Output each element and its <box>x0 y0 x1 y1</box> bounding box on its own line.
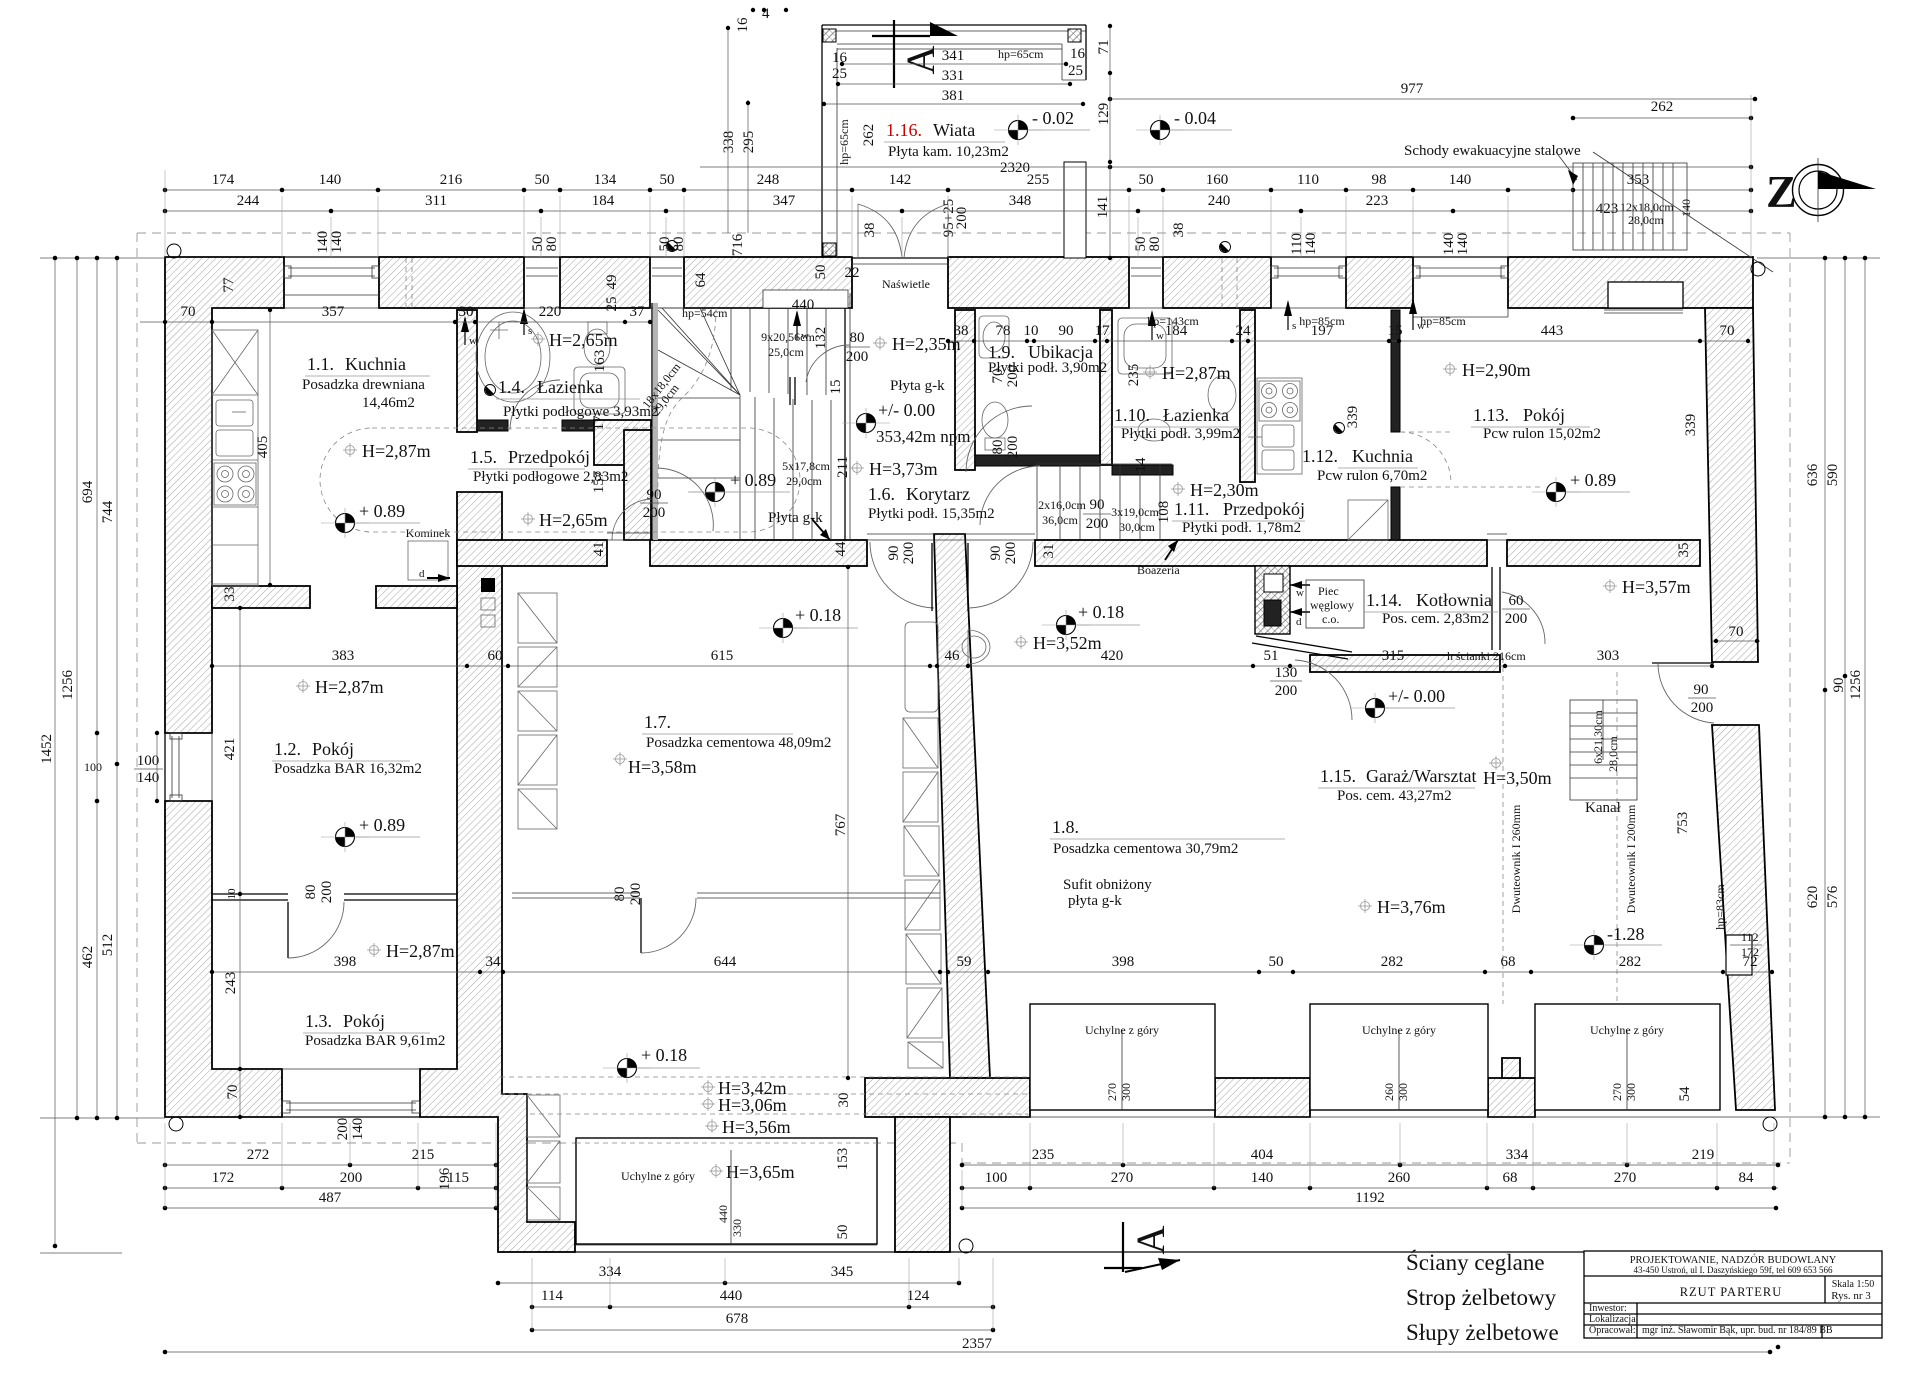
svg-text:A: A <box>1128 1225 1173 1254</box>
svg-text:200: 200 <box>319 881 335 904</box>
svg-text:H=2,90m: H=2,90m <box>1462 360 1531 380</box>
kotlownia bottom wall <box>1310 655 1500 672</box>
room 1.1 label <box>302 354 430 411</box>
svg-text:200: 200 <box>1691 700 1714 716</box>
svg-text:421: 421 <box>222 738 238 761</box>
svg-text:216: 216 <box>440 172 463 188</box>
svg-text:98: 98 <box>1372 172 1387 188</box>
pocket in right wall <box>1726 935 1752 975</box>
svg-text:17: 17 <box>1095 323 1111 339</box>
svg-text:300: 300 <box>1396 1083 1410 1101</box>
svg-text:Garaż/Warsztat: Garaż/Warsztat <box>1366 766 1476 786</box>
wall corner block 1.4/stair <box>594 420 651 465</box>
svg-text:Lokalizacja:: Lokalizacja: <box>1589 1314 1638 1325</box>
window top 50 (650-684) <box>650 257 684 308</box>
wall divider 1.7/1.8 <box>934 534 990 1078</box>
svg-text:90: 90 <box>1059 323 1074 339</box>
svg-text:6x21,30cm: 6x21,30cm <box>1591 710 1605 764</box>
entry opening threshold <box>852 257 948 259</box>
svg-text:330: 330 <box>730 1219 744 1237</box>
svg-text:d: d <box>1296 616 1302 628</box>
H height labels with targets <box>296 330 1691 1182</box>
partition wall in 1.7 with door <box>512 892 640 894</box>
svg-text:620: 620 <box>1805 886 1821 909</box>
svg-text:Schody ewakuacyjne stalowe: Schody ewakuacyjne stalowe <box>1404 143 1581 159</box>
svg-text:130: 130 <box>1275 665 1298 681</box>
svg-text:615: 615 <box>711 648 734 664</box>
interior dims kitchen row right <box>1255 314 1750 343</box>
svg-text:Łazienka: Łazienka <box>537 377 603 397</box>
svg-text:339: 339 <box>1345 406 1361 429</box>
svg-text:25: 25 <box>604 297 620 312</box>
sink room 1.8 <box>962 630 990 664</box>
svg-text:90: 90 <box>886 546 902 561</box>
svg-text:282: 282 <box>1381 954 1404 970</box>
basement stairs 1.11 <box>980 462 1172 540</box>
svg-text:196: 196 <box>437 1167 453 1190</box>
svg-text:Uchylne z góry: Uchylne z góry <box>621 1169 695 1183</box>
kitchen vertical dim 405 <box>269 310 271 585</box>
svg-text:Ubikacja: Ubikacja <box>1028 342 1093 362</box>
section mark A top <box>872 20 958 88</box>
svg-text:H=2,87m: H=2,87m <box>315 677 384 697</box>
svg-text:H=2,65m: H=2,65m <box>539 510 608 530</box>
bottom center chains <box>163 1264 1773 1354</box>
svg-text:1.4.: 1.4. <box>498 377 525 397</box>
svg-text:Ściany ceglane: Ściany ceglane <box>1406 1249 1545 1275</box>
svg-text:5x17,8cm: 5x17,8cm <box>782 459 830 473</box>
wall stub 1.11/1.13 <box>1391 487 1400 540</box>
svg-text:Pos. cem. 43,27m2: Pos. cem. 43,27m2 <box>1337 788 1452 804</box>
svg-text:10: 10 <box>226 888 238 900</box>
svg-text:c.o.: c.o. <box>1322 612 1339 626</box>
room 1.13 label <box>1471 405 1601 442</box>
svg-text:44: 44 <box>833 541 849 557</box>
svg-text:744: 744 <box>100 500 116 523</box>
svg-text:A: A <box>898 45 943 74</box>
wall 1.9/1.10 <box>1100 310 1112 465</box>
svg-text:223: 223 <box>1366 193 1389 209</box>
interior dims bathroom row y341 <box>946 314 1255 343</box>
bottom chains row3 <box>163 1190 1779 1210</box>
svg-text:68: 68 <box>1501 954 1516 970</box>
dashed site boundary <box>137 233 1790 1163</box>
svg-text:487: 487 <box>319 1190 342 1206</box>
svg-text:węglowy: węglowy <box>1310 598 1354 612</box>
svg-text:mgr inż. Sławomir Bąk, upr. bu: mgr inż. Sławomir Bąk, upr. bud. nr 184/… <box>1642 1325 1833 1336</box>
svg-text:10: 10 <box>1024 323 1039 339</box>
svg-text:405: 405 <box>255 436 271 459</box>
svg-text:Korytarz: Korytarz <box>906 484 970 504</box>
room 1.3 label <box>303 1011 445 1049</box>
svg-text:270: 270 <box>1610 1083 1624 1101</box>
bathroom 1.9 fixtures <box>979 316 1009 450</box>
svg-text:14,46m2: 14,46m2 <box>362 395 415 411</box>
svg-text:235: 235 <box>1126 364 1142 387</box>
svg-text:200: 200 <box>1086 516 1109 532</box>
svg-text:Przedpokój: Przedpokój <box>508 447 590 467</box>
svg-text:59: 59 <box>957 954 972 970</box>
door kotlownia right 60/200 <box>1502 592 1545 644</box>
dim line y166 <box>700 166 1751 168</box>
svg-text:- 0.02: - 0.02 <box>1032 108 1074 128</box>
top chain 1 <box>165 189 1573 191</box>
svg-text:140: 140 <box>329 231 345 254</box>
section mark A bottom <box>1104 1222 1180 1272</box>
room 1.10 label <box>1112 405 1240 442</box>
svg-text:+ 0.18: + 0.18 <box>795 605 841 625</box>
svg-text:140: 140 <box>1455 233 1471 256</box>
kotlownia right wall <box>1491 567 1493 650</box>
svg-text:1.13.: 1.13. <box>1473 405 1509 425</box>
svg-text:51: 51 <box>1264 648 1279 664</box>
svg-text:Pokój: Pokój <box>1523 405 1565 425</box>
svg-text:H=3,57m: H=3,57m <box>1622 577 1691 597</box>
svg-text:200: 200 <box>1005 436 1021 459</box>
svg-text:1.7.: 1.7. <box>644 712 671 732</box>
svg-text:hp=83cm: hp=83cm <box>1713 884 1727 930</box>
wall 1.12/1.13 <box>1391 310 1400 432</box>
svg-text:50: 50 <box>813 265 829 280</box>
svg-text:440: 440 <box>720 1288 743 1304</box>
garage door G3 Uchylne <box>1535 1004 1720 1110</box>
svg-text:+ 0.18: + 0.18 <box>641 1045 687 1065</box>
wall mid M3 <box>1035 540 1487 566</box>
svg-text:70: 70 <box>181 304 196 320</box>
svg-text:Posadzka cementowa 48,09m2: Posadzka cementowa 48,09m2 <box>646 735 831 751</box>
svg-text:Posadzka BAR 16,32m2: Posadzka BAR 16,32m2 <box>274 761 422 777</box>
svg-text:80: 80 <box>303 885 319 900</box>
svg-text:49: 49 <box>604 275 620 290</box>
svg-text:211: 211 <box>835 456 851 478</box>
kominek square <box>408 541 448 580</box>
svg-text:płyta g-k: płyta g-k <box>1068 893 1122 909</box>
door corridor to 1.9 <box>966 406 1032 472</box>
svg-text:H=3,73m: H=3,73m <box>869 459 938 479</box>
dim row y972 <box>210 954 1774 974</box>
boiler piec weglowy arrows <box>1290 580 1364 628</box>
vertical dim 71/129/141 <box>1109 26 1111 258</box>
niche in T8 <box>1608 282 1683 308</box>
svg-text:29,0cm: 29,0cm <box>786 474 822 488</box>
svg-text:220: 220 <box>539 304 562 320</box>
svg-text:90: 90 <box>1831 678 1847 693</box>
wall between 1.1 and 1.2 seg1 <box>212 586 310 608</box>
svg-text:H=3,52m: H=3,52m <box>1033 633 1102 653</box>
wall right lower <box>1712 725 1775 1110</box>
svg-text:30: 30 <box>459 304 474 320</box>
svg-text:1.6.: 1.6. <box>868 484 895 504</box>
wall top T2 <box>379 257 524 308</box>
door labels 90/200 pairs <box>315 231 1716 1141</box>
sciany text block <box>1406 1249 1559 1345</box>
svg-text:16: 16 <box>832 50 848 66</box>
svg-text:16: 16 <box>1070 46 1086 62</box>
witness lines from chains to wall <box>165 95 1751 257</box>
wall left lower + bottom-left <box>165 801 282 1117</box>
svg-text:694: 694 <box>80 480 96 503</box>
svg-text:140: 140 <box>350 1118 366 1141</box>
svg-text:Z: Z <box>1766 166 1797 217</box>
svg-text:80: 80 <box>990 440 1006 455</box>
door kotlownia left 130/200 <box>1295 660 1352 720</box>
svg-text:200: 200 <box>1005 365 1021 388</box>
svg-text:398: 398 <box>334 954 357 970</box>
svg-text:345: 345 <box>831 1264 854 1280</box>
svg-text:30,0cm: 30,0cm <box>1119 520 1155 534</box>
garage door G2 Uchylne <box>1310 1004 1488 1110</box>
svg-text:Strop żelbetowy: Strop żelbetowy <box>1406 1285 1557 1310</box>
svg-text:H=2,87m: H=2,87m <box>362 441 431 461</box>
svg-text:462: 462 <box>80 946 96 969</box>
svg-text:Posadzka drewniana: Posadzka drewniana <box>302 377 425 393</box>
misc small rotated dims <box>591 233 1760 1239</box>
window top 50 (1129-1163) <box>1129 257 1163 308</box>
wall 1.4 bottom seg2 <box>562 420 600 431</box>
svg-text:282: 282 <box>1619 954 1642 970</box>
svg-text:15: 15 <box>1388 323 1403 339</box>
svg-text:Kotłownia: Kotłownia <box>1416 590 1492 610</box>
svg-text:576: 576 <box>1825 885 1841 908</box>
svg-text:420: 420 <box>1101 648 1124 664</box>
svg-text:50: 50 <box>1269 954 1284 970</box>
svg-text:348: 348 <box>1009 193 1032 209</box>
svg-text:272: 272 <box>247 1147 270 1163</box>
wall between 1.1 and 1.2 seg2 <box>376 586 457 608</box>
dim row y666 <box>210 648 1714 668</box>
svg-text:353: 353 <box>1627 172 1650 188</box>
svg-text:1.16.: 1.16. <box>886 120 922 140</box>
svg-text:+ 0.89: + 0.89 <box>359 815 405 835</box>
svg-text:141: 141 <box>1095 196 1111 219</box>
room 1.16 wiata label <box>884 120 1030 176</box>
door 1.12 to 1.13 dashed <box>1400 431 1452 433</box>
chimney flue dashes in T2 <box>405 258 407 308</box>
svg-text:338: 338 <box>721 131 737 154</box>
door 1.5 to 1.7 <box>612 499 652 540</box>
top dimension chain 977 <box>1110 98 1755 100</box>
wall 1.9 left <box>955 310 975 470</box>
svg-text:80: 80 <box>1147 237 1163 252</box>
svg-text:Wiata: Wiata <box>933 120 975 140</box>
svg-text:124: 124 <box>907 1288 930 1304</box>
room 1.5 label <box>468 447 628 485</box>
svg-text:2x16,0cm: 2x16,0cm <box>1038 498 1086 512</box>
svg-text:68: 68 <box>1503 1170 1518 1186</box>
svg-text:110: 110 <box>1297 172 1319 188</box>
wall mid M2 <box>650 540 867 566</box>
svg-text:200: 200 <box>846 349 869 365</box>
wall top T3 <box>560 257 650 308</box>
svg-text:142: 142 <box>889 172 912 188</box>
wall right upper <box>1705 308 1758 662</box>
svg-text:25: 25 <box>832 66 847 82</box>
svg-text:- 0.04: - 0.04 <box>1174 108 1216 128</box>
svg-text:140: 140 <box>319 172 342 188</box>
svg-text:+/- 0.00: +/- 0.00 <box>878 400 935 420</box>
svg-text:H=3,65m: H=3,65m <box>726 1162 795 1182</box>
svg-text:24: 24 <box>1236 323 1252 339</box>
svg-text:Płyta g-k: Płyta g-k <box>768 510 823 526</box>
window top 110 (1271-1346) <box>1271 257 1346 308</box>
svg-text:70: 70 <box>1729 624 1744 640</box>
svg-text:70: 70 <box>1720 323 1735 339</box>
svg-text:1.11.: 1.11. <box>1174 499 1209 519</box>
left vertical chains <box>39 256 165 1253</box>
kitchen 1.12 counter <box>1248 378 1302 474</box>
svg-text:270: 270 <box>1105 1083 1119 1101</box>
svg-text:17: 17 <box>591 415 607 431</box>
wall top T5 <box>948 257 1129 308</box>
right vertical chains <box>1757 256 1880 1120</box>
svg-text:140: 140 <box>1251 1170 1274 1186</box>
svg-text:2320: 2320 <box>1000 160 1030 176</box>
window left wall (733-801) <box>165 733 212 801</box>
title block <box>1584 1251 1882 1349</box>
half symbols on walls <box>667 241 678 252</box>
room 1.8 label <box>1050 817 1285 909</box>
svg-text:78: 78 <box>996 323 1011 339</box>
svg-text:Posadzka cementowa 30,79m2: Posadzka cementowa 30,79m2 <box>1053 841 1238 857</box>
svg-text:Boazeria: Boazeria <box>1137 563 1180 577</box>
svg-text:100: 100 <box>985 1170 1008 1186</box>
kanal pit stairs garage <box>1570 700 1637 800</box>
room 1.15 label <box>1318 766 1476 804</box>
svg-text:34: 34 <box>486 954 502 970</box>
svg-text:244: 244 <box>237 193 260 209</box>
svg-text:w: w <box>1296 587 1304 599</box>
window bottom (282-420) <box>282 1069 420 1117</box>
svg-text:636: 636 <box>1805 463 1821 486</box>
svg-text:31: 31 <box>1041 544 1057 559</box>
wall bottom pillar BB2 <box>1215 1078 1310 1117</box>
door 1.4 arc <box>510 380 560 430</box>
svg-text:270: 270 <box>1111 1170 1134 1186</box>
fireplace column boxes <box>481 578 495 592</box>
dashed ceiling zone 1.1/1.5 <box>320 428 800 532</box>
svg-text:H=2,35m: H=2,35m <box>892 334 961 354</box>
svg-text:767: 767 <box>833 813 849 836</box>
door 1.5 right 90/200 <box>657 468 713 531</box>
svg-text:381: 381 <box>942 88 965 104</box>
room 1.2 vertical dims <box>239 608 241 1117</box>
svg-text:260: 260 <box>1388 1170 1411 1186</box>
door right wall 90/200 <box>1658 664 1714 723</box>
dim 353 <box>1573 189 1751 191</box>
bottom witness lines <box>165 1123 1774 1330</box>
svg-text:3x19,0cm: 3x19,0cm <box>1111 505 1159 519</box>
svg-text:153: 153 <box>835 1148 851 1171</box>
svg-text:140: 140 <box>137 770 160 786</box>
svg-text:174: 174 <box>212 172 235 188</box>
svg-text:1.3.: 1.3. <box>305 1011 332 1031</box>
svg-text:50: 50 <box>535 172 550 188</box>
plyta g-k corridor arrow <box>812 519 830 540</box>
svg-text:311: 311 <box>425 193 447 209</box>
wall vertical V1/V2/V3 between rooms and 1.7 with lower extension <box>420 492 575 1252</box>
svg-text:Pokój: Pokój <box>343 1011 385 1031</box>
svg-text:H=2,65m: H=2,65m <box>549 330 618 350</box>
svg-text:22: 22 <box>845 265 860 281</box>
wall stairwell left <box>624 430 651 540</box>
wall top T1 + left wall upper <box>165 257 284 733</box>
svg-text:1256: 1256 <box>60 670 76 701</box>
thin wall 1.2/1.3 <box>212 893 288 895</box>
svg-text:Łazienka: Łazienka <box>1163 405 1229 425</box>
svg-text:H=3,06m: H=3,06m <box>718 1095 787 1115</box>
svg-text:172: 172 <box>1741 945 1759 959</box>
fixture half symbol 1.4 <box>485 385 496 396</box>
svg-text:Pcw rulon 6,70m2: Pcw rulon 6,70m2 <box>1317 468 1427 484</box>
svg-text:200: 200 <box>1275 683 1298 699</box>
dim 767 room 1.7 <box>847 567 849 1078</box>
svg-text:14: 14 <box>1133 457 1149 473</box>
svg-text:hp=65cm: hp=65cm <box>837 119 851 165</box>
svg-text:140: 140 <box>1449 172 1472 188</box>
svg-text:50: 50 <box>835 1225 851 1240</box>
svg-text:H=2,87m: H=2,87m <box>1162 363 1231 383</box>
kitchen 1.1 counter <box>212 330 258 586</box>
svg-text:28,0cm: 28,0cm <box>1628 213 1664 227</box>
svg-text:Inwestor:: Inwestor: <box>1589 1303 1627 1314</box>
svg-text:12x18,0cm: 12x18,0cm <box>1620 200 1674 214</box>
wiata structure <box>822 25 1086 258</box>
svg-text:41: 41 <box>591 542 607 557</box>
svg-text:H=3,76m: H=3,76m <box>1377 897 1446 917</box>
wall 1.10 bottom <box>1112 465 1173 475</box>
svg-text:Płyta g-k: Płyta g-k <box>890 378 945 394</box>
svg-text:28,0cm: 28,0cm <box>1606 736 1620 772</box>
svg-text:200: 200 <box>340 1170 363 1186</box>
svg-text:200: 200 <box>1003 542 1019 565</box>
svg-text:Pcw rulon 15,02m2: Pcw rulon 15,02m2 <box>1483 426 1601 442</box>
svg-text:678: 678 <box>726 1311 749 1327</box>
svg-text:71: 71 <box>1096 40 1112 55</box>
svg-text:90: 90 <box>988 546 1004 561</box>
dim 262 fire stairs <box>1573 117 1751 119</box>
wall 1.4 bottom seg1 <box>477 420 508 431</box>
svg-text:315: 315 <box>1382 648 1405 664</box>
svg-text:35: 35 <box>1676 543 1692 558</box>
svg-text:1.2.: 1.2. <box>274 739 301 759</box>
fixture half symbol 1.10 <box>1334 423 1345 434</box>
svg-text:Dwuteownik I 260mm: Dwuteownik I 260mm <box>1509 804 1523 913</box>
svg-text:240: 240 <box>1208 193 1231 209</box>
svg-text:Płytki podł. 1,78m2: Płytki podł. 1,78m2 <box>1182 520 1301 536</box>
svg-text:108: 108 <box>1156 501 1172 524</box>
svg-text:80: 80 <box>612 887 628 902</box>
dwuteownik centerlines <box>1502 658 1504 1004</box>
svg-text:1.5.: 1.5. <box>470 447 497 467</box>
svg-text:16: 16 <box>735 17 751 33</box>
room 1.6 label <box>868 484 995 522</box>
svg-text:200: 200 <box>1505 611 1528 627</box>
svg-text:172: 172 <box>212 1170 235 1186</box>
svg-text:157: 157 <box>591 470 607 493</box>
chimney flue dashes in T6 <box>1221 258 1223 308</box>
svg-text:90: 90 <box>1694 682 1709 698</box>
svg-text:132: 132 <box>813 327 829 350</box>
survey circles <box>167 244 1777 1253</box>
svg-text:15: 15 <box>828 380 844 395</box>
svg-text:295: 295 <box>741 131 757 154</box>
stair labels <box>639 297 945 526</box>
svg-text:-1.28: -1.28 <box>1607 924 1645 944</box>
garage door G0 Uchylne <box>576 1138 877 1244</box>
svg-text:25: 25 <box>1068 63 1083 79</box>
svg-text:70: 70 <box>990 369 1006 384</box>
cabinet 1.11 <box>1348 500 1388 540</box>
